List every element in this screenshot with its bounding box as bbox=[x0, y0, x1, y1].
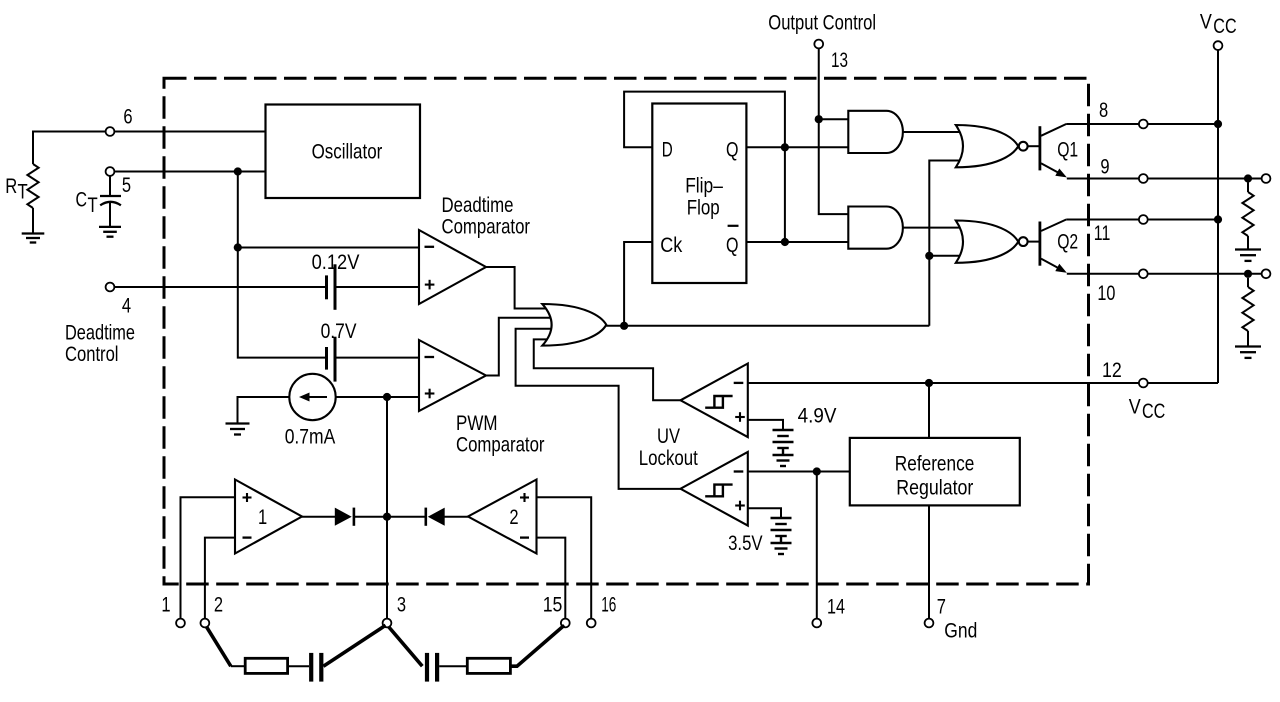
pin 9 external terminal bbox=[1262, 174, 1271, 183]
op-amp error amplifier 1 bbox=[235, 480, 302, 554]
OR gate bbox=[542, 304, 606, 346]
wire current source to PWM + bbox=[336, 396, 419, 398]
capacitor CT bbox=[100, 196, 121, 205]
UV2 - symbol bbox=[734, 470, 744, 472]
wire pin 10 to load resistor bbox=[1148, 273, 1262, 275]
wire Q-bar to AND2 bbox=[746, 241, 848, 243]
junction node Q-bar output loop bbox=[781, 238, 789, 246]
wire UV2 - to regulator bbox=[748, 471, 850, 473]
wire amp1 - to pin 2 bbox=[205, 538, 235, 619]
ground RT bbox=[22, 234, 45, 243]
wire node to NOR2 input bbox=[929, 255, 961, 257]
wire PWM output to OR gate bbox=[486, 318, 552, 376]
svg-text:9: 9 bbox=[1100, 154, 1109, 178]
wire OR output line bbox=[606, 325, 929, 327]
svg-text:4: 4 bbox=[122, 294, 131, 318]
battery 0.7V bbox=[327, 337, 336, 382]
AND gate 1 bbox=[848, 111, 903, 153]
diode D2 bbox=[426, 508, 445, 526]
svg-text:Output Control: Output Control bbox=[768, 10, 876, 34]
wire CT top bbox=[109, 176, 111, 196]
svg-text:T: T bbox=[18, 179, 28, 203]
svg-text:V: V bbox=[1200, 10, 1213, 34]
wire regulator bottom to pin 7 bbox=[928, 505, 930, 618]
svg-text:0.7V: 0.7V bbox=[321, 319, 358, 343]
wire pin 13 to AND gates bbox=[819, 48, 849, 214]
ground CT bbox=[99, 227, 121, 237]
junction node PWM + feedback bbox=[383, 393, 391, 401]
svg-text:11: 11 bbox=[1094, 221, 1111, 245]
error amp 1 + symbol bbox=[243, 493, 252, 502]
junction node Ck branch bbox=[620, 322, 628, 330]
wire amp2 - to pin 15 bbox=[537, 538, 566, 619]
wire amp2 + to pin 16 bbox=[537, 497, 592, 618]
wire node to deadtime comparator - bbox=[238, 247, 419, 249]
svg-text:15: 15 bbox=[543, 593, 563, 617]
svg-text:D: D bbox=[662, 138, 673, 162]
svg-text:8: 8 bbox=[1099, 98, 1108, 122]
PWM comparator - symbol bbox=[425, 356, 435, 358]
pin 15 terminal bbox=[561, 619, 570, 628]
svg-text:Q2: Q2 bbox=[1057, 230, 1078, 254]
svg-text:Oscillator: Oscillator bbox=[312, 140, 383, 164]
AND gate 2 bbox=[848, 207, 903, 249]
wire 0.12V to deadtime comparator + bbox=[337, 286, 420, 288]
svg-text:CC: CC bbox=[1213, 14, 1236, 38]
svg-text:12: 12 bbox=[1102, 358, 1122, 382]
wire pin 9 to load resistor bbox=[1148, 178, 1262, 180]
svg-text:10: 10 bbox=[1097, 281, 1115, 305]
pin 1 terminal bbox=[176, 619, 185, 628]
wire feedback loop D to Q-bar bbox=[624, 92, 785, 242]
junction node pin11 VCC bbox=[1214, 215, 1222, 223]
UV2 + symbol bbox=[735, 501, 745, 511]
load resistor pin 10 bbox=[1247, 278, 1249, 287]
transistor Q2 bbox=[1040, 220, 1067, 273]
wire Q1 emitter to pin 9 bbox=[1067, 178, 1139, 180]
op-amp error amplifier 2 bbox=[468, 480, 537, 554]
wire OR line up to NOR1 input bbox=[929, 161, 961, 326]
svg-text:3: 3 bbox=[397, 593, 406, 617]
NOR gate 2 bubble bbox=[1019, 237, 1028, 246]
error amp 1 - symbol bbox=[243, 536, 252, 538]
pin 4 terminal bbox=[106, 283, 115, 292]
wire D2 to amp2 bbox=[444, 516, 469, 518]
wire Q1 collector to pin 8 bbox=[1066, 123, 1139, 125]
wire NOR2 to Q2 base bbox=[1028, 241, 1039, 243]
comparator PWM U2 bbox=[419, 340, 486, 411]
junction node pin10 resistor bbox=[1244, 270, 1252, 278]
wire amp1 output to diode D1 bbox=[302, 516, 336, 518]
junction node deadtime - branch bbox=[234, 243, 242, 251]
diode D1 bbox=[335, 508, 354, 526]
wire UV1 + to 4.9V battery bbox=[748, 420, 783, 430]
oscillator block bbox=[266, 105, 421, 199]
reference regulator block bbox=[850, 438, 1020, 506]
wire pin 11 to VCC rail bbox=[1148, 219, 1218, 221]
wire load resistor 2 to ground bbox=[1247, 331, 1249, 347]
svg-text:R: R bbox=[5, 174, 17, 198]
wire NOR1 to Q1 base bbox=[1028, 145, 1039, 147]
svg-text:0.7mA: 0.7mA bbox=[285, 425, 336, 449]
wire UV1 output to OR gate bbox=[534, 339, 681, 400]
wire node to diode D2 bbox=[387, 516, 426, 518]
wire RT to ground bbox=[32, 208, 34, 234]
wire Q2 emitter to pin 10 bbox=[1067, 273, 1139, 275]
pin 8 terminal bbox=[1139, 120, 1148, 129]
svg-text:Deadtime: Deadtime bbox=[65, 320, 135, 344]
wire UV1 - to pin 12 bbox=[748, 382, 1139, 384]
svg-text:4.9V: 4.9V bbox=[798, 404, 838, 428]
transistor Q1 bbox=[1040, 124, 1067, 177]
UV1 hysteresis symbol bbox=[705, 396, 732, 408]
wire pin 5 to oscillator bbox=[114, 171, 265, 173]
pin 12 terminal bbox=[1139, 379, 1148, 388]
svg-text:UV: UV bbox=[657, 424, 681, 448]
wire to feedback resistor R1 bbox=[231, 665, 245, 667]
wire pin 8 to VCC rail bbox=[1148, 123, 1218, 125]
wire regulator top to pin 12 line bbox=[928, 383, 930, 438]
svg-text:Q: Q bbox=[726, 138, 739, 162]
NOR gate 1 bubble bbox=[1019, 142, 1028, 151]
svg-text:Lockout: Lockout bbox=[639, 446, 698, 470]
svg-text:Control: Control bbox=[65, 342, 119, 366]
UV1 + symbol bbox=[735, 412, 745, 422]
UV1 - symbol bbox=[734, 382, 744, 384]
svg-text:Q1: Q1 bbox=[1057, 138, 1078, 162]
svg-text:T: T bbox=[88, 193, 98, 217]
svg-text:Gnd: Gnd bbox=[944, 619, 977, 643]
wire AND2 to NOR2 bbox=[903, 227, 961, 229]
wire pin 12 to VCC rail corner bbox=[1148, 382, 1218, 384]
svg-text:Flip–: Flip– bbox=[685, 174, 723, 198]
battery 3.5V reference bbox=[771, 518, 792, 554]
junction node reference regulator bbox=[925, 379, 933, 387]
ground load 2 bbox=[1235, 347, 1261, 358]
battery 0.12V bbox=[327, 264, 336, 310]
error amp 2 + symbol bbox=[520, 493, 529, 502]
svg-text:7: 7 bbox=[937, 595, 946, 619]
svg-text:Flop: Flop bbox=[687, 196, 720, 220]
wire AND1 to NOR1 bbox=[903, 131, 961, 133]
svg-text:1: 1 bbox=[258, 505, 267, 529]
pin 10 external terminal bbox=[1262, 269, 1271, 278]
load resistor pin 9 bbox=[1247, 183, 1249, 193]
svg-text:V: V bbox=[1129, 395, 1142, 419]
NOR gate 2 bbox=[956, 221, 1018, 263]
junction node pin13 AND1 bbox=[815, 115, 823, 123]
ground current source bbox=[226, 424, 250, 435]
wire feedback vertical to pin 3 bbox=[386, 397, 388, 619]
ground load 1 bbox=[1235, 250, 1261, 261]
svg-text:14: 14 bbox=[827, 595, 845, 619]
wire Q2 collector to pin 11 bbox=[1066, 219, 1139, 221]
wire node to pin 14 bbox=[816, 472, 818, 619]
deadtime comparator + symbol bbox=[425, 280, 435, 290]
current source 0.7mA bbox=[289, 374, 335, 420]
svg-text:5: 5 bbox=[122, 173, 131, 197]
PWM comparator + symbol bbox=[425, 389, 435, 399]
pin 9 terminal bbox=[1139, 174, 1148, 183]
svg-text:CC: CC bbox=[1142, 399, 1165, 423]
comparator UV lockout 2 bbox=[681, 452, 748, 526]
wire CT to ground bbox=[109, 203, 111, 227]
pin 3 terminal bbox=[383, 619, 392, 628]
resistor feedback R2 bbox=[467, 658, 510, 673]
svg-text:Comparator: Comparator bbox=[442, 214, 531, 238]
pin 13 terminal bbox=[814, 40, 823, 49]
VCC rail bbox=[1217, 50, 1219, 383]
svg-text:Reference: Reference bbox=[895, 452, 975, 476]
battery 4.9V reference bbox=[773, 430, 794, 466]
dashed IC boundary box bbox=[164, 78, 1089, 584]
wire UV2 + to 3.5V battery bbox=[748, 508, 781, 518]
wire D1 to pin 3 node bbox=[354, 516, 387, 518]
junction node Q output loop bbox=[781, 143, 789, 151]
wire current source to ground bbox=[238, 397, 290, 424]
svg-text:16: 16 bbox=[601, 593, 616, 617]
svg-text:Deadtime: Deadtime bbox=[442, 193, 514, 217]
pin 2 terminal bbox=[201, 619, 210, 628]
svg-text:1: 1 bbox=[161, 593, 170, 617]
VCC terminal top bbox=[1214, 41, 1223, 50]
NOR gate 1 bbox=[956, 125, 1018, 167]
wire R2 to pin 15 diagonal bbox=[510, 625, 564, 666]
pin 6 terminal bbox=[106, 127, 115, 136]
wire C2 to R2 bbox=[439, 665, 467, 667]
wire pin 6 to RT bbox=[33, 132, 106, 165]
svg-text:13: 13 bbox=[831, 48, 848, 72]
junction node pin9 resistor bbox=[1244, 174, 1252, 182]
UV2 hysteresis symbol bbox=[705, 485, 732, 497]
svg-text:Comparator: Comparator bbox=[456, 432, 545, 456]
wire UV2 output to OR gate bbox=[516, 329, 681, 489]
junction node pin 14 bbox=[813, 467, 821, 475]
pin 7 terminal bbox=[925, 619, 934, 628]
junction node pin 3 bbox=[383, 513, 391, 521]
svg-text:C: C bbox=[76, 188, 88, 212]
deadtime comparator - symbol bbox=[425, 246, 435, 248]
wire C1 to pin 3 diagonal bbox=[323, 625, 385, 666]
pin 5 terminal bbox=[106, 167, 115, 176]
svg-text:0.12V: 0.12V bbox=[312, 250, 360, 274]
error amp 2 - symbol bbox=[520, 536, 529, 538]
wire pin 6 to oscillator bbox=[114, 131, 265, 133]
svg-text:Ck: Ck bbox=[660, 233, 682, 257]
junction node pin8 VCC bbox=[1214, 120, 1222, 128]
wire node to 0.7V battery bbox=[238, 248, 325, 358]
svg-text:3.5V: 3.5V bbox=[728, 531, 763, 555]
svg-text:PWM: PWM bbox=[456, 411, 498, 435]
capacitor feedback C1 bbox=[311, 653, 321, 682]
wire pin 4 to 0.12V battery bbox=[114, 286, 325, 288]
wire Ck to OR output line bbox=[624, 242, 652, 326]
wire Q to AND1 bbox=[746, 146, 848, 148]
wire deadtime output to OR gate bbox=[486, 267, 547, 309]
svg-text:Q: Q bbox=[726, 233, 739, 257]
wire amp1 + to pin 1 bbox=[181, 497, 236, 618]
wire load resistor 1 to ground bbox=[1247, 236, 1249, 250]
resistor RT bbox=[27, 164, 38, 208]
wire pin2 feedback diagonal bbox=[206, 627, 231, 667]
wire pin3 feedback diagonal bbox=[388, 627, 422, 667]
wire node to AND1 top input bbox=[819, 118, 849, 120]
wire pin5 node down bbox=[237, 172, 239, 248]
pin 16 terminal bbox=[587, 619, 596, 628]
flip-flop block bbox=[652, 104, 746, 284]
svg-text:Regulator: Regulator bbox=[896, 475, 973, 499]
pin 10 terminal bbox=[1139, 269, 1148, 278]
svg-text:2: 2 bbox=[509, 505, 518, 529]
wire R1 to C1 bbox=[288, 665, 309, 667]
resistor feedback R1 bbox=[245, 658, 287, 673]
pin 11 terminal bbox=[1139, 215, 1148, 224]
comparator deadtime U1 bbox=[419, 230, 486, 304]
svg-text:6: 6 bbox=[123, 105, 132, 129]
wire 0.7V to PWM comparator - bbox=[337, 357, 420, 359]
junction node NOR2 branch bbox=[925, 252, 933, 260]
svg-text:2: 2 bbox=[214, 593, 223, 617]
comparator UV lockout 1 bbox=[681, 364, 748, 438]
junction node pin 5 line bbox=[234, 167, 242, 175]
pin 14 terminal bbox=[812, 619, 821, 628]
capacitor feedback C2 bbox=[427, 653, 437, 682]
